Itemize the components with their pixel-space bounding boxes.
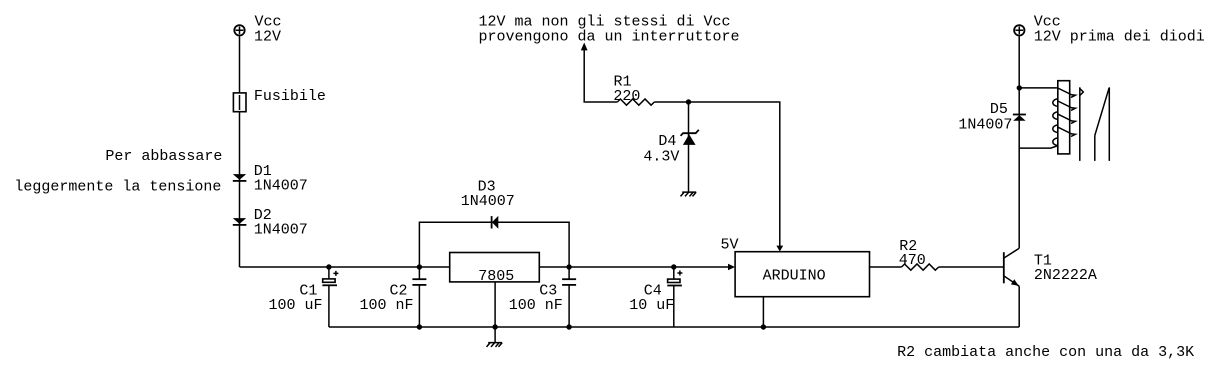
svg-text:100 nF: 100 nF bbox=[360, 297, 414, 314]
svg-text:provengono da un interruttore: provengono da un interruttore bbox=[479, 29, 740, 46]
svg-text:1N4007: 1N4007 bbox=[461, 193, 515, 210]
svg-text:2N2222A: 2N2222A bbox=[1034, 267, 1097, 284]
svg-text:220: 220 bbox=[613, 88, 640, 105]
svg-text:Per abbassare: Per abbassare bbox=[105, 148, 222, 165]
svg-text:ARDUINO: ARDUINO bbox=[763, 268, 826, 285]
svg-text:12V: 12V bbox=[254, 28, 281, 45]
svg-text:D5: D5 bbox=[990, 101, 1008, 118]
svg-text:D4: D4 bbox=[658, 133, 676, 150]
svg-text:470: 470 bbox=[899, 252, 926, 269]
svg-text:R2 cambiata anche con una da 3: R2 cambiata anche con una da 3,3K bbox=[897, 344, 1194, 361]
svg-text:100 uF: 100 uF bbox=[269, 297, 323, 314]
svg-text:4.3V: 4.3V bbox=[643, 149, 679, 166]
svg-text:1N4007: 1N4007 bbox=[254, 222, 308, 239]
svg-text:1N4007: 1N4007 bbox=[254, 178, 308, 195]
svg-text:12V prima dei diodi: 12V prima dei diodi bbox=[1034, 28, 1205, 45]
svg-text:7805: 7805 bbox=[478, 268, 514, 285]
svg-text:Fusibile: Fusibile bbox=[254, 88, 326, 105]
svg-text:leggermente la tensione: leggermente la tensione bbox=[14, 178, 221, 195]
svg-text:100 nF: 100 nF bbox=[509, 297, 563, 314]
svg-text:5V: 5V bbox=[721, 237, 739, 254]
svg-text:1N4007: 1N4007 bbox=[958, 117, 1012, 134]
svg-text:10 uF: 10 uF bbox=[629, 297, 674, 314]
